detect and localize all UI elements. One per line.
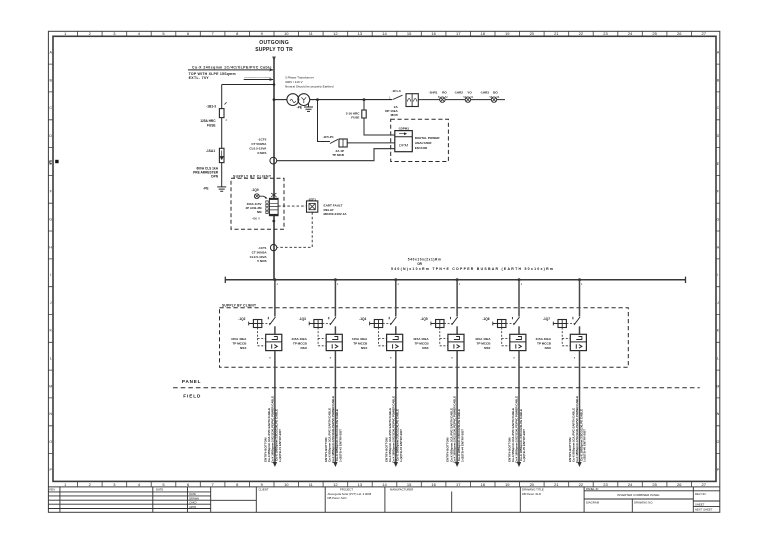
svg-text:M: M [716,384,719,388]
svg-text:-1HR1: -1HR1 [429,91,438,95]
svg-text:19: 19 [505,482,510,487]
svg-text:N: N [49,412,52,416]
feeder 1 outgoing wire [269,351,275,463]
svg-text:-1F5-P1: -1F5-P1 [323,135,334,139]
svg-text:4: 4 [138,31,141,36]
svg-text:L: L [50,357,52,361]
svg-text:EXTL. 70Y: EXTL. 70Y [189,76,210,80]
svg-text:15: 15 [407,31,412,36]
svg-text:8: 8 [236,482,239,487]
MCCB feeder -1Q3 [291,334,342,350]
svg-text:CT 500/5A: CT 500/5A [252,250,268,254]
svg-text:4: 4 [138,482,141,487]
fuse 3-16A HRC [346,100,395,135]
svg-text:DRAWN: DRAWN [189,496,199,500]
svg-text:-1B1-3: -1B1-3 [206,104,216,108]
MCCB feeder -1Q5 [413,334,464,350]
svg-text:-1CT1: -1CT1 [258,246,267,250]
svg-text:C: C [49,106,52,110]
svg-text:MK300-240V-1A: MK300-240V-1A [324,212,348,216]
svg-text:54: 54 [471,96,474,99]
svg-text:23: 23 [603,31,608,36]
svg-text:24: 24 [628,482,633,487]
svg-text:11: 11 [309,482,314,487]
wire transformer secondary [310,99,392,101]
svg-text:a: a [451,356,453,359]
svg-text:a: a [390,356,392,359]
svg-text:13: 13 [358,482,363,487]
svg-text:-1CT0: -1CT0 [258,138,267,142]
svg-text:K: K [49,329,52,333]
wire main incomer bus [273,57,275,280]
svg-text:27: 27 [701,482,706,487]
svg-text:N: N [717,412,720,416]
svg-text:L: L [717,357,719,361]
svg-text:CL0.5-15VA: CL0.5-15VA [249,146,267,150]
svg-text:1-(B)TB-#4 ENTRY-BOT: 1-(B)TB-#4 ENTRY-BOT [460,429,464,462]
node OUTGOING SUPPLY TO TR [255,40,293,62]
svg-text:1-(B)TB-#2 ENTRY-BOT: 1-(B)TB-#2 ENTRY-BOT [339,429,343,462]
feeder 3 wire [394,278,399,334]
arrow feeder 2 to load [333,462,337,467]
svg-text:6: 6 [187,31,190,36]
svg-text:APPR: APPR [189,505,196,509]
MCB -1F5-P1 TP [318,100,395,157]
svg-text:16: 16 [431,482,436,487]
svg-text:O: O [49,440,52,444]
svg-text:1-(B)TB-#3 ENTRY-BOT: 1-(B)TB-#3 ENTRY-BOT [399,429,403,462]
svg-text:20: 20 [530,482,535,487]
shunt trip coil feeder 1 [249,320,272,346]
svg-text:NSX: NSX [240,346,247,350]
svg-text:E: E [49,159,52,164]
svg-text:G: G [717,218,720,222]
cable callout incoming cable [188,65,274,80]
svg-text:I: I [50,273,51,277]
svg-text:NSX: NSX [361,346,368,350]
svg-text:15: 15 [407,482,412,487]
title block [48,487,719,512]
svg-text:ANALYZER: ANALYZER [415,141,432,145]
svg-text:23: 23 [603,482,608,487]
svg-text:CHKD: CHKD [189,501,196,505]
svg-text:18: 18 [480,482,485,487]
svg-text:-1Q0: -1Q0 [252,188,259,192]
feeder 3 outgoing wire [390,351,396,463]
svg-text:1-(B)TB-#6 ENTRY-BOT: 1-(B)TB-#6 ENTRY-BOT [583,429,587,462]
svg-text:a: a [513,356,515,359]
svg-text:52: 52 [445,96,448,99]
transformer T1 3-phase [273,76,334,106]
svg-text:-1HR3: -1HR3 [480,91,489,95]
svg-text:NSX: NSX [422,346,429,350]
svg-text:TOP WITH XLPE 15Sqmm: TOP WITH XLPE 15Sqmm [189,72,236,76]
svg-text:415A 40kA: 415A 40kA [231,337,247,341]
feeder 4 wire [456,278,461,334]
svg-text:DATE: DATE [156,488,163,492]
svg-text:2: 2 [89,31,92,36]
svg-text:-1Q7: -1Q7 [543,317,550,321]
svg-text:F: F [50,190,53,194]
svg-text:5: 5 [162,31,165,36]
svg-text:-1Q5: -1Q5 [421,317,428,321]
svg-text:13: 13 [358,31,363,36]
fuse -1B1-3 125A HRC [200,102,227,127]
svg-text:540(N)x10xRm TPN+E COPPER B: 540(N)x10xRm TPN+E COPPER BUSBAR (EARTH … [391,267,553,271]
svg-text:22: 22 [579,482,584,487]
svg-text:PANEL ID: PANEL ID [586,487,598,491]
svg-text:5: 5 [162,482,165,487]
svg-text:DRAWING NO.: DRAWING NO. [634,500,653,504]
panel/field boundary [173,379,700,398]
svg-text:O: O [717,440,720,444]
svg-text:5 NOS: 5 NOS [257,259,266,263]
svg-text:1: 1 [337,282,339,286]
svg-text:12: 12 [333,482,338,487]
svg-text:NSX: NSX [301,346,308,350]
MCB 2A DP 10kA [385,94,418,118]
svg-text:P: P [49,468,52,472]
svg-text:OUTGOING: OUTGOING [259,40,289,46]
svg-text:K: K [717,329,720,333]
svg-text:19: 19 [505,31,510,36]
svg-text:SHEET: SHEET [695,502,705,506]
svg-text:3 NOS: 3 NOS [257,151,266,155]
svg-text:DIAGRAM: DIAGRAM [586,500,600,504]
svg-text:1: 1 [459,282,461,286]
svg-text:415A 40kA: 415A 40kA [352,337,368,341]
svg-text:400 V: 400 V [252,216,260,220]
svg-text:1: 1 [64,482,67,487]
svg-text:10: 10 [284,482,289,487]
svg-text:RO: RO [442,91,447,95]
feeder 2 wire [334,278,339,334]
cable label feeder 6 [568,396,587,463]
feeder 6 wire [578,278,583,334]
svg-text:B: B [717,78,720,82]
svg-text:CLIENT: CLIENT [259,488,269,492]
svg-text:16: 16 [431,31,436,36]
svg-text:SUPPLY BY CLIENT: SUPPLY BY CLIENT [233,175,271,179]
MCCB feeder -1Q4 [352,334,403,350]
svg-text:a: a [330,356,332,359]
svg-text:RELAY: RELAY [324,208,335,212]
svg-text:FUSE: FUSE [351,115,359,119]
svg-text:-PE: -PE [297,106,302,110]
svg-text:DRAWING TITLE: DRAWING TITLE [522,487,544,491]
switch blade feeder -1Q3 [299,317,336,325]
svg-text:-1Q3: -1Q3 [299,317,306,321]
svg-text:415A 40kA: 415A 40kA [413,337,429,341]
svg-text:415A 40kA: 415A 40kA [475,337,491,341]
cable label feeder 3 [384,396,403,463]
arrow feeder 4 to load [455,462,459,467]
svg-text:-PE: -PE [203,187,208,191]
svg-text:FIELD: FIELD [183,393,201,398]
svg-text:9: 9 [261,482,264,487]
svg-text:D: D [49,134,52,138]
cable label feeder 2 [324,396,343,463]
svg-text:415A 40kA: 415A 40kA [291,337,307,341]
MCCB feeder -1Q7 [535,334,586,350]
svg-text:C: C [717,106,720,110]
arrow feeder 3 to load [394,462,398,467]
svg-text:7: 7 [211,482,214,487]
svg-text:EART FAULT: EART FAULT [324,203,343,207]
svg-text:12: 12 [333,31,338,36]
svg-text:14: 14 [382,31,387,36]
svg-text:YO: YO [467,91,472,95]
svg-text:PANEL: PANEL [182,379,201,384]
svg-text:SUPPLY TO TR: SUPPLY TO TR [255,47,293,53]
svg-text:-1SA1: -1SA1 [206,149,215,153]
svg-text:OR: OR [417,262,422,266]
svg-text:21: 21 [554,31,559,36]
svg-text:DPN: DPN [211,175,218,179]
svg-text:17: 17 [456,31,461,36]
svg-text:H: H [717,245,720,249]
svg-text:TP MCCB: TP MCCB [537,341,552,345]
feeder 5 outgoing wire [513,351,519,463]
svg-text:CL0.5-10VA: CL0.5-10VA [250,255,268,259]
svg-text:DPM: DPM [399,143,409,148]
svg-text:TP MCCB: TP MCCB [353,341,368,345]
MCCB feeder -1Q6 [475,334,526,350]
svg-text:BO: BO [493,91,498,95]
svg-text:10: 10 [284,31,289,36]
svg-text:A: A [49,51,52,55]
svg-text:FUSE: FUSE [207,123,216,127]
svg-text:J: J [50,301,52,305]
svg-text:1: 1 [277,282,279,286]
lamp -1HR2 [454,91,474,103]
svg-text:14: 14 [382,482,387,487]
shunt trip coil feeder 5 [493,320,516,346]
svg-text:MCB: MCB [391,113,399,117]
svg-text:-1Q2: -1Q2 [238,317,245,321]
ground left -PE [203,187,226,192]
arrow feeder 5 to load [517,462,521,467]
svg-text:TP MCCB: TP MCCB [476,341,491,345]
cable label feeder 5 [508,396,527,463]
wire breaker to relay (dashed) [278,205,306,207]
switch blade feeder -1Q5 [421,317,458,325]
svg-text:E: E [717,162,720,166]
switch -1F1-3 [389,89,403,100]
svg-text:REV: REV [50,488,56,492]
switch blade feeder -1Q7 [543,317,580,325]
svg-text:11: 11 [309,31,314,36]
earth fault relay -1EF1 [307,197,348,216]
svg-text:7: 7 [211,31,214,36]
shunt trip coil feeder 4 [431,320,454,346]
svg-text:a: a [574,356,576,359]
svg-text:I: I [717,273,718,277]
svg-text:-1Q6: -1Q6 [482,317,489,321]
svg-text:.............................: ............................. [244,75,271,79]
feeder 4 outgoing wire [451,351,457,463]
svg-text:26: 26 [677,482,682,487]
svg-text:DB Panel -SLD: DB Panel -SLD [522,492,541,496]
svg-text:1-(B)TB-#1 ENTRY-BOT: 1-(B)TB-#1 ENTRY-BOT [278,429,282,462]
svg-text:H: H [49,245,52,249]
supply-by-client box (feeders) [220,308,629,368]
shunt trip coil feeder 2 [309,320,332,346]
svg-text:SUPPLY BY CLIENT: SUPPLY BY CLIENT [222,303,256,307]
busbar TPN+E copper [225,258,685,283]
meter -1DPM1 digital power analyzer [395,126,441,151]
feeder 5 wire [518,278,523,334]
cable label feeder 1 [264,396,283,463]
svg-text:TP MCCB: TP MCCB [415,341,430,345]
svg-text:20: 20 [530,31,535,36]
svg-text:a: a [269,356,271,359]
wire relay to CT2 (dashed) [277,212,312,247]
shunt trip coil feeder 6 [553,320,576,346]
arrow feeder 6 to load [577,462,581,467]
cable label feeder 4 [446,396,465,463]
svg-text:M: M [49,384,52,388]
svg-text:DIGITAL POWER: DIGITAL POWER [415,136,440,140]
ground transformer -PE [297,103,313,111]
svg-text:NSX: NSX [545,346,552,350]
svg-text:D: D [717,134,720,138]
meter box dashed [391,119,449,161]
feeder 1 wire [273,278,278,334]
svg-text:NEXT SHEET: NEXT SHEET [695,508,713,512]
svg-text:A: A [717,51,720,55]
svg-text:J: J [717,301,719,305]
svg-text:2: 2 [226,118,228,122]
svg-text:TP MCB: TP MCB [332,153,345,157]
svg-text:1: 1 [64,31,67,36]
svg-text:-1DPM1: -1DPM1 [398,126,409,130]
svg-text:NM: NM [257,210,262,214]
svg-text:-1Q4: -1Q4 [359,317,366,321]
revision marker B [49,159,58,164]
svg-text:INVERTER COMBINER PANEL: INVERTER COMBINER PANEL [617,493,660,497]
svg-text:25: 25 [652,482,657,487]
svg-text:2: 2 [89,482,92,487]
arrow feeder 1 to load [273,462,277,467]
MCCB feeder -1Q2 [231,334,282,350]
svg-text:415A 40kA: 415A 40kA [535,337,551,341]
svg-text:Cu-X 240sqmm 1C/4C/XLPE/PVC Ca: Cu-X 240sqmm 1C/4C/XLPE/PVC Cable [192,65,272,69]
feeder 6 outgoing wire [574,351,580,463]
svg-text:TP MCCB: TP MCCB [293,341,308,345]
svg-text:Neutral Should be properly Ear: Neutral Should be properly Earthed [285,84,334,88]
svg-text:540x10x(2x1)Rm: 540x10x(2x1)Rm [408,258,441,262]
svg-text:G: G [49,218,52,222]
svg-text:DB Panel -SLD: DB Panel -SLD [328,496,347,500]
svg-text:9: 9 [261,31,264,36]
wire CT1 to DPM [277,149,395,161]
svg-text:REV NO.: REV NO. [695,492,707,496]
svg-text:56: 56 [497,96,500,99]
supply-by-client box (incomer) [231,178,284,229]
svg-text:21: 21 [554,482,559,487]
svg-text:24: 24 [628,31,633,36]
svg-text:CT 500/5A: CT 500/5A [251,142,267,146]
feeder 2 outgoing wire [330,351,336,463]
wire left branch [222,85,274,187]
svg-text:22: 22 [579,31,584,36]
svg-text:EM 6400: EM 6400 [415,146,428,150]
CT -1CT1 on main bus [250,244,277,263]
svg-text:6: 6 [187,482,190,487]
svg-text:NSX: NSX [484,346,491,350]
svg-text:B: B [49,78,52,82]
cable callout neutral link [244,75,274,81]
svg-text:25: 25 [652,31,657,36]
svg-text:17: 17 [456,482,461,487]
svg-text:3: 3 [113,31,116,36]
svg-text:1: 1 [581,282,583,286]
svg-text:1: 1 [397,282,399,286]
shunt trip coil feeder 3 [370,320,393,346]
svg-text:-1HR2: -1HR2 [454,91,463,95]
svg-text:26: 26 [677,31,682,36]
svg-text:1-(B)TB-#5 ENTRY-BOT: 1-(B)TB-#5 ENTRY-BOT [522,429,526,462]
lamp -1HR3 [480,91,500,103]
lamp -1HR1 [429,91,449,103]
switch blade feeder -1Q2 [238,317,275,325]
CT -1CT0 on main bus [249,138,276,164]
circuit breaker -1Q0 400A [245,188,278,223]
svg-text:PROJECT: PROJECT [340,487,353,491]
svg-text:DATE: DATE [189,492,196,496]
svg-text:8: 8 [236,31,239,36]
svg-text:MANUFACTURER: MANUFACTURER [390,487,413,491]
svg-text:TP MCCB: TP MCCB [232,341,247,345]
svg-text:27: 27 [701,31,706,36]
switch blade feeder -1Q6 [482,317,519,325]
svg-text:1: 1 [521,282,523,286]
svg-text:-1F1-3: -1F1-3 [392,89,401,93]
wire indicator lamp line [418,99,505,101]
svg-text:18: 18 [480,31,485,36]
svg-text:P: P [717,468,720,472]
surge arrester -1SA1 [193,148,224,178]
switch blade feeder -1Q4 [359,317,396,325]
svg-text:3: 3 [113,482,116,487]
